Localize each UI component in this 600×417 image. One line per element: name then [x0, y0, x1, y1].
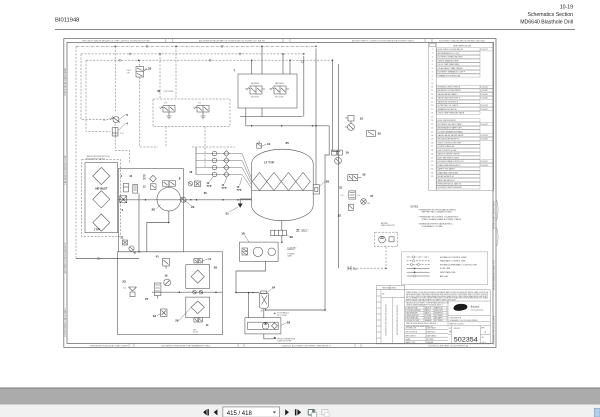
check valve row 2 — [196, 158, 252, 182]
svg-text:3: 3 — [432, 57, 433, 59]
svg-text:14: 14 — [431, 98, 433, 100]
toolbar snapshot icon active — [308, 410, 315, 415]
wire main air line — [118, 199, 252, 201]
svg-text:11: 11 — [431, 87, 433, 89]
wire between valve 6 and valve 4 — [114, 124, 116, 128]
junction dot — [251, 59, 253, 61]
svg-text:27: 27 — [431, 146, 433, 148]
toolbar last page button — [295, 409, 297, 415]
wire valve 4 to air inlet — [115, 136, 129, 163]
svg-text:12: 12 — [431, 90, 433, 92]
min press valve 36 — [195, 181, 201, 187]
wire separator drop a — [248, 293, 250, 318]
svg-text:CHK COOLER B: CHK COOLER B — [406, 332, 417, 334]
svg-text:34: 34 — [153, 314, 157, 318]
svg-text:18: 18 — [431, 113, 433, 115]
svg-text:BUTTERFLY: BUTTERFLY — [435, 315, 444, 317]
svg-text:(OPTION): (OPTION) — [164, 91, 174, 93]
control valve box 7 — [238, 74, 297, 108]
wire left pilot drop 3 — [86, 60, 111, 131]
lube pump box 26 — [245, 318, 281, 334]
svg-text:RELIEF RELIEF: RELIEF RELIEF — [407, 313, 418, 315]
svg-text:PNEUMATIC CONTROL LINE: PNEUMATIC CONTROL LINE — [440, 260, 466, 263]
junction dot — [175, 46, 177, 48]
svg-text:SOLENOID CHECK ORIFICE: SOLENOID CHECK ORIFICE — [438, 87, 461, 89]
svg-text:5: 5 — [432, 64, 433, 66]
svg-text:OIL AIR SAFETY TANK PRESSU: OIL AIR SAFETY TANK PRESSU — [438, 67, 464, 70]
svg-text:SENSOR REG MIN FILTER ORIFICE: SENSOR REG MIN FILTER ORIFICE — [397, 304, 399, 335]
svg-text:DWG NO: DWG NO — [454, 328, 461, 330]
svg-text:5-B-431: 5-B-431 — [482, 94, 488, 96]
junction dot — [235, 292, 237, 294]
wire box a left drop — [138, 194, 140, 252]
tank oil level line — [252, 190, 314, 192]
svg-text:15: 15 — [431, 101, 433, 103]
temp sender 19 — [331, 150, 342, 164]
oil stop valve 43 — [133, 185, 138, 194]
svg-text:CONTROL SENSOR: CONTROL SENSOR — [407, 310, 422, 312]
oil pressure regulator 27 — [154, 283, 161, 299]
svg-text:SOLENOID DRAIN CONTROL CO: SOLENOID DRAIN CONTROL CO — [438, 160, 465, 163]
svg-text:INJECTION (OPT): INJECTION (OPT) — [381, 225, 395, 227]
wire separator drop b — [263, 309, 265, 318]
svg-text:SZ: SZ — [449, 328, 451, 330]
svg-text:35: 35 — [431, 176, 433, 178]
junction dot — [332, 59, 334, 61]
wire compressor drain — [147, 211, 169, 252]
svg-text:17: 17 — [431, 109, 433, 111]
bottom zone strip divider — [237, 343, 239, 347]
svg-text:5-B-480: 5-B-480 — [482, 98, 488, 100]
leader 18 — [245, 235, 250, 242]
wire box7 drop left — [245, 108, 247, 126]
bottom zone strip divider — [354, 343, 356, 347]
wire injection drop — [350, 247, 386, 269]
svg-text:B: B — [449, 330, 451, 334]
svg-text:AIR SENSOR RELIEF AIR OIL HOSE: AIR SENSOR RELIEF AIR OIL HOSE HOSE OIL … — [199, 40, 265, 43]
wire option box riser 2 — [175, 46, 177, 99]
bottom zone strip divider — [360, 343, 362, 347]
svg-text:COOLER: COOLER — [425, 315, 432, 317]
leader line valve 6 — [120, 115, 126, 119]
air end injection option dashed box — [375, 232, 398, 246]
svg-text:SH: SH — [482, 337, 484, 339]
top zone strip divider — [165, 39, 167, 43]
svg-text:SUMP: SUMP — [353, 269, 357, 271]
cylinder 3 — [124, 183, 129, 192]
safety valve 12 — [257, 141, 262, 149]
svg-text:OIL COOLER: OIL COOLER — [277, 315, 288, 317]
junction dot — [196, 199, 198, 201]
svg-text:COOLER SEPARATOR BYPASS: COOLER SEPARATOR BYPASS — [438, 130, 464, 133]
separator element 2 — [267, 173, 282, 191]
wire bus control line 3 — [86, 59, 333, 61]
svg-text:7: 7 — [432, 72, 433, 74]
line end plug 35 — [348, 266, 351, 270]
svg-text:5-B-436: 5-B-436 — [482, 139, 488, 141]
leader 20 — [320, 181, 326, 186]
Bucyrus logo — [453, 304, 467, 311]
svg-text:MIN SEPARATOR SAFETY AIR: MIN SEPARATOR SAFETY AIR — [438, 127, 463, 130]
leader 34 — [157, 314, 161, 316]
lube filter 24 — [259, 291, 268, 309]
svg-text:REV: REV — [482, 328, 485, 330]
junction dot — [248, 292, 250, 294]
frame outer border — [64, 39, 496, 348]
svg-text:6: 6 — [432, 68, 433, 70]
svg-text:SEPARATOR SOLENOID VAL: SEPARATOR SOLENOID VAL — [438, 74, 461, 77]
port circle — [209, 59, 211, 61]
svg-text:33: 33 — [122, 279, 126, 283]
wire box7 drop mid — [261, 108, 263, 117]
filter element upper 11 — [191, 270, 204, 283]
legend box — [402, 252, 488, 285]
svg-text:18: 18 — [241, 231, 245, 235]
svg-text:CHECK CONTROL REG ORIFI: CHECK CONTROL REG ORIFI — [438, 142, 462, 144]
bottom zone strip divider — [133, 343, 135, 347]
svg-text:SET: SET — [261, 311, 264, 313]
svg-text:CONTROL BUTTERFLY BUTTERFLY MI: CONTROL BUTTERFLY BUTTERFLY MIN RELIEF S — [281, 345, 331, 347]
junction dot — [385, 267, 387, 269]
svg-text:SOLENOID COMP: SOLENOID COMP — [407, 320, 420, 322]
wire option box drop — [166, 127, 205, 169]
junction dot — [138, 251, 140, 253]
junction dot — [265, 309, 267, 311]
svg-text:26: 26 — [431, 142, 433, 144]
svg-text:LINE CONTROL SOLEN: LINE CONTROL SOLEN — [438, 150, 457, 152]
port circle — [301, 61, 303, 63]
separator element 1 — [252, 173, 267, 191]
svg-text:DESCRIPTION QH: DESCRIPTION QH — [453, 45, 471, 47]
temp gauge 16 — [164, 279, 171, 286]
svg-text:BEFORE THE CYLINDER TO RUN.: BEFORE THE CYLINDER TO RUN. — [422, 212, 453, 214]
svg-text:30: 30 — [362, 173, 366, 177]
wire check row drop — [195, 147, 197, 175]
svg-text:LINE HOSE COOLER REG COMP: LINE HOSE COOLER REG COMP — [65, 155, 67, 185]
svg-text:4 PL: 4 PL — [127, 72, 131, 74]
svg-text:BUTTERFLY REG INLET TANK: BUTTERFLY REG INLET TANK — [438, 123, 463, 126]
leader 26 — [281, 323, 286, 326]
parts list table frame — [429, 42, 494, 190]
svg-text:SCHEMATIC, OIL SYS HIGH PRESS: SCHEMATIC, OIL SYS HIGH PRESS — [450, 319, 479, 322]
wire left vertical pilot line — [75, 46, 77, 258]
legend row AIR LINE — [407, 275, 430, 277]
legend row HYDRAULIC/PNEUMATIC CONTROL LINE — [407, 264, 430, 266]
svg-text:GAUGE GAUGE GAUGE GAUGE: GAUGE GAUGE GAUGE GAUGE — [438, 134, 465, 137]
svg-text:HOSE LINE SOLENOID: HOSE LINE SOLENOID — [438, 120, 457, 122]
fan drive box 18 — [240, 242, 279, 261]
toolbar first page button — [203, 409, 207, 415]
leader 14 TYP — [225, 178, 227, 184]
pressure transducer 10 — [345, 116, 354, 131]
svg-text:REG INLET GAUGE MIN AIR OIL LI: REG INLET GAUGE MIN AIR OIL LINE CONTROL… — [82, 40, 150, 43]
junction dot — [281, 241, 283, 243]
svg-text:AIR RELIEF COOLER PRESS: AIR RELIEF COOLER PRESS — [438, 89, 462, 92]
wire manifold line above tank — [246, 125, 329, 127]
svg-text:AIR LINE: AIR LINE — [440, 275, 449, 278]
svg-text:12: 12 — [267, 142, 271, 146]
separator element 3 — [281, 173, 296, 191]
svg-text:5-B-475: 5-B-475 — [482, 124, 488, 126]
title block outer box — [377, 290, 491, 344]
bottom zone strip divider — [128, 343, 130, 347]
pressure regulator 31 — [349, 191, 356, 199]
svg-text:SENSOR HOSE SENSOR INLET LINE: SENSOR HOSE SENSOR INLET LINE INLE — [406, 323, 436, 325]
svg-text:SAFETY REG SAFETY: SAFETY REG SAFETY — [438, 168, 457, 171]
lube filter package box B — [118, 252, 223, 335]
svg-text:22: 22 — [431, 128, 433, 130]
option valve box 40 dashed — [153, 99, 230, 127]
svg-text:27: 27 — [145, 297, 149, 301]
svg-text:30: 30 — [431, 157, 433, 159]
air inlet filter box — [85, 163, 118, 233]
pilot valve box7 left — [250, 86, 262, 94]
svg-text:2 PL: 2 PL — [198, 103, 201, 105]
svg-text:AIR BUTTERFLY CONTROL FILTER M: AIR BUTTERFLY CONTROL FILTER MIN MIN BUT… — [352, 40, 414, 43]
junction dot — [114, 46, 116, 48]
leader line valve 4 — [118, 123, 125, 130]
svg-text:1: 1 — [432, 49, 433, 51]
leader 28 — [157, 205, 161, 209]
wire bus pneumatic control line 2 — [81, 53, 304, 55]
svg-text:HOSE CHECK COOLER REG IN: HOSE CHECK COOLER REG IN — [438, 49, 464, 51]
svg-text:VENT TO: VENT TO — [302, 229, 310, 231]
junction dot — [282, 53, 284, 55]
air filter element 3 — [93, 214, 110, 231]
filter bypass valves bottom — [194, 318, 202, 322]
svg-text:22: 22 — [338, 214, 342, 218]
svg-text:PRESSURE HOSE INLET LINE CONTR: PRESSURE HOSE INLET LINE CONTR — [90, 345, 128, 347]
svg-text:AIR INLET: AIR INLET — [95, 186, 108, 190]
wire separator feed line — [236, 292, 259, 294]
butterfly valve 4 — [112, 128, 118, 136]
discharge check valve 23b — [181, 197, 186, 202]
header underline — [55, 29, 575, 31]
wire right drop x303.8 — [303, 56, 305, 117]
leader 13 TYP — [210, 177, 214, 182]
valve 32 left — [123, 240, 128, 245]
port circle — [239, 53, 241, 55]
wire solenoid 23 drop — [140, 60, 158, 147]
svg-text:CHECK TEMP PRESSURE VALVE: CHECK TEMP PRESSURE VALVE — [438, 112, 465, 115]
pilot valve box7 right — [274, 86, 286, 94]
port circle — [129, 53, 131, 55]
top zone strip divider — [431, 39, 433, 43]
svg-text:RELIEF PR: RELIEF PR — [435, 313, 444, 315]
svg-text:34: 34 — [431, 172, 433, 174]
svg-text:WT ORIFI: WT ORIFI — [427, 339, 434, 341]
svg-text:5-B-472: 5-B-472 — [482, 49, 488, 51]
junction dot — [222, 199, 224, 201]
svg-text:RELIEF SENSOR SO: RELIEF SENSOR SO — [438, 176, 455, 178]
svg-text:VENT/CASE LINE: VENT/CASE LINE — [440, 271, 456, 274]
svg-text:OPS: OPS — [193, 329, 196, 331]
svg-text:TYP: TYP — [222, 187, 227, 190]
toolbar background — [0, 405, 600, 417]
svg-text:SO-350: SO-350 — [193, 331, 198, 333]
svg-text:2 PL: 2 PL — [164, 103, 167, 105]
svg-text:29: 29 — [214, 266, 218, 270]
svg-text:20: 20 — [326, 179, 330, 183]
wire option box riser 1 — [159, 54, 161, 99]
svg-text:40: 40 — [157, 89, 161, 93]
air end injection option pump — [379, 236, 394, 243]
svg-text:WP: WP — [368, 203, 370, 205]
svg-text:TANK HOSE SOLENOID S: TANK HOSE SOLENOID S — [438, 100, 459, 103]
svg-text:BUTTERFLY SEPARATOR COMP P: BUTTERFLY SEPARATOR COMP P — [438, 71, 466, 74]
legend row FLUID LINE — [407, 267, 430, 269]
svg-text:COOLER FILTER LINE LINE COOLER: COOLER FILTER LINE LINE COOLER — [386, 304, 388, 336]
svg-text:1 OF 1: 1 OF 1 — [481, 342, 486, 344]
svg-text:SENSOR FILTER: SENSOR FILTER — [407, 315, 420, 317]
junction dot — [303, 53, 305, 55]
top zone strip divider — [424, 39, 426, 43]
svg-text:19: 19 — [431, 116, 433, 118]
svg-text:SET 58 PSI: SET 58 PSI — [251, 97, 259, 99]
svg-text:SENSOR DRAIN REG SAFETY CO: SENSOR DRAIN REG SAFETY CO — [493, 259, 496, 290]
bottom zone strip divider — [243, 343, 245, 347]
svg-text:HYDRAULIC/PNEUMATIC CONTROL LI: HYDRAULIC/PNEUMATIC CONTROL LINE — [440, 263, 478, 266]
svg-text:MIN GAUGE AIR RELIEF OI: MIN GAUGE AIR RELIEF OI — [438, 138, 460, 141]
svg-text:ORIFICE DRAIN BUTTERF: ORIFICE DRAIN BUTTERF — [438, 59, 459, 62]
filter loop upper 29 — [186, 265, 210, 289]
svg-text:37: 37 — [370, 194, 374, 198]
junction dot — [190, 199, 192, 201]
svg-text:23: 23 — [191, 205, 195, 209]
svg-text:26: 26 — [287, 321, 291, 325]
svg-text:24: 24 — [431, 135, 433, 137]
svg-text:NOTES:: NOTES: — [410, 207, 419, 209]
leader 23b — [186, 202, 192, 207]
svg-text:415 / 418: 415 / 418 — [227, 411, 253, 417]
svg-text:28: 28 — [431, 150, 433, 152]
toolbar previous page button — [214, 409, 218, 415]
port circle — [221, 45, 223, 47]
svg-text:BUTTERFLY PRESSURE LINE SEPARA: BUTTERFLY PRESSURE LINE SEPARATOR CHEC — [162, 344, 211, 347]
sampling valve 34 — [161, 309, 168, 317]
port circle — [119, 59, 121, 61]
frame inner border — [67, 42, 493, 343]
junction dot — [281, 125, 283, 127]
receiver tank 25 — [252, 149, 314, 221]
svg-text:HOSE IN: HOSE IN — [425, 318, 431, 320]
svg-text:4: 4 — [432, 60, 433, 62]
svg-text:BUTTERFLY BYPASS REG REG: BUTTERFLY BYPASS REG REG — [438, 56, 464, 59]
shutoff 33 — [129, 287, 137, 297]
orifice 29b — [367, 131, 376, 137]
svg-text:PART NO: 502354: PART NO: 502354 — [450, 323, 464, 326]
svg-text:DRAIN DRAIN PRESSURE OI: DRAIN DRAIN PRESSURE OI — [438, 164, 462, 167]
filter bypass valves top — [194, 259, 202, 263]
title block revision header box — [377, 285, 491, 344]
svg-text:GAUGE GAUGE DRAIN O: GAUGE GAUGE DRAIN O — [438, 93, 459, 96]
svg-text:16: 16 — [431, 105, 433, 107]
svg-text:5-B-472: 5-B-472 — [482, 109, 488, 111]
svg-text:5-B-426: 5-B-426 — [482, 90, 488, 92]
wire bus hydraulic control line top — [76, 45, 316, 47]
blowdown muffler 39 — [271, 230, 287, 236]
svg-text:TYP: TYP — [207, 185, 212, 188]
svg-text:29: 29 — [431, 154, 433, 156]
svg-text:BI011948: BI011948 — [55, 18, 79, 24]
wire oil line right — [266, 309, 326, 311]
wire header line under box7 — [240, 116, 303, 118]
svg-text:10: 10 — [431, 83, 433, 85]
svg-text:Schematics Section: Schematics Section — [527, 12, 573, 18]
svg-text:39: 39 — [290, 235, 294, 239]
leader 21 — [230, 207, 239, 212]
filter loop lower — [186, 297, 210, 318]
svg-text:CONTROL VALVE BU: CONTROL VALVE BU — [438, 145, 455, 148]
svg-text:28: 28 — [152, 208, 156, 212]
svg-text:5-B-472: 5-B-472 — [482, 161, 488, 163]
junction dot — [252, 292, 254, 294]
compressor air end 28 — [157, 187, 181, 211]
svg-text:21: 21 — [431, 124, 433, 126]
svg-text:28: 28 — [175, 319, 179, 323]
filter element lower 11 — [191, 301, 204, 314]
svg-text:INLET HOS: INLET HOS — [435, 310, 443, 312]
viewer background band — [0, 388, 600, 405]
svg-text:2 PL: 2 PL — [120, 133, 124, 135]
junction dot — [123, 199, 125, 201]
legend row HYDRAULIC CONTROL LINES — [407, 256, 430, 258]
junction dot — [138, 59, 140, 61]
svg-text:13: 13 — [431, 94, 433, 96]
junction dot — [261, 46, 263, 48]
revision bracket marker — [497, 200, 498, 246]
svg-text:1 TYP: 1 TYP — [94, 228, 101, 231]
top zone strip divider — [289, 39, 291, 43]
band top edge — [0, 387, 600, 389]
junction dot — [251, 125, 253, 127]
filter check valves middle — [193, 290, 203, 294]
top zone strip divider — [172, 39, 174, 43]
junction dot — [145, 199, 147, 201]
svg-text:17 TYP: 17 TYP — [264, 160, 274, 164]
svg-text:502354: 502354 — [454, 338, 479, 344]
svg-text:VALVE OIL RELIEF ORIFICE: VALVE OIL RELIEF ORIFICE — [438, 153, 461, 156]
svg-text:TYP: TYP — [237, 189, 242, 192]
svg-text:Bucyrus: Bucyrus — [471, 306, 480, 309]
svg-text:ORIFICE RELIEF DRAIN SEPAR: ORIFICE RELIEF DRAIN SEPAR — [64, 67, 67, 96]
svg-text:BUTTERFLY COMP SOLENOID PR: BUTTERFLY COMP SOLENOID PR — [65, 242, 67, 273]
title block disclaimer paragraph — [406, 291, 489, 301]
leader 12 — [262, 144, 267, 146]
option regulator valve left — [163, 106, 175, 113]
valve 38 — [348, 204, 353, 210]
wire purge line left — [76, 258, 139, 260]
page box dropdown caret — [273, 412, 276, 414]
vent symbol right of muffler — [296, 229, 300, 231]
svg-text:8: 8 — [432, 75, 433, 77]
air filter element 2 — [93, 191, 110, 208]
svg-text:FILTER BYPASS CHECK TANK C: FILTER BYPASS CHECK TANK C — [64, 307, 67, 336]
svg-text:31: 31 — [431, 161, 433, 163]
svg-text:SET 110 PSI: SET 110 PSI — [275, 97, 284, 99]
svg-text:32: 32 — [431, 165, 433, 167]
svg-text:FLUID LINE: FLUID LINE — [440, 268, 451, 270]
leader 15 TYP — [240, 178, 243, 186]
check valve row 3 — [196, 165, 252, 185]
svg-text:REG TEMP LINE: REG TEMP LINE — [407, 318, 419, 320]
svg-text:MD6640 Blasthole Drill: MD6640 Blasthole Drill — [520, 20, 573, 26]
port circle — [97, 257, 99, 259]
intake shutoff valve 6 — [113, 117, 119, 123]
svg-text:TANK LINE VALVE CO: TANK LINE VALVE CO — [438, 179, 456, 182]
compressor package box A — [118, 169, 183, 252]
wire box7 riser b — [261, 46, 263, 74]
